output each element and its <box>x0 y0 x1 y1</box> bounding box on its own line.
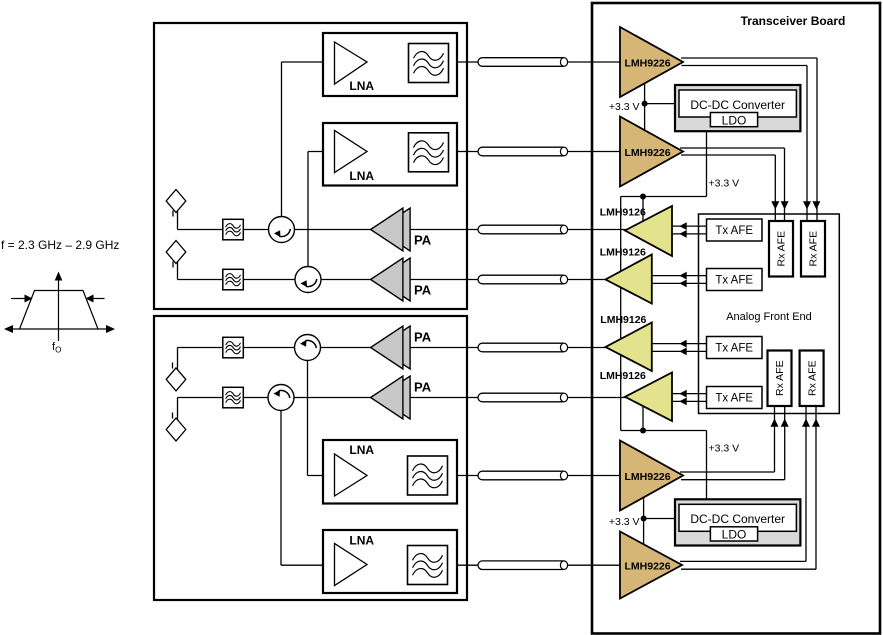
svg-text:DC-DC Converter: DC-DC Converter <box>690 98 785 112</box>
svg-text:LMH9126: LMH9126 <box>600 207 646 219</box>
svg-text:Rx AFE: Rx AFE <box>808 231 820 267</box>
svg-text:+3.3 V: +3.3 V <box>609 516 640 528</box>
svg-text:LNA: LNA <box>349 169 374 183</box>
svg-text:Tx AFE: Tx AFE <box>715 225 753 237</box>
svg-text:LMH9126: LMH9126 <box>600 247 646 259</box>
svg-text:DC-DC Converter: DC-DC Converter <box>690 512 785 526</box>
svg-text:LMH9226: LMH9226 <box>625 561 671 573</box>
svg-text:LNA: LNA <box>349 79 374 93</box>
svg-text:LDO: LDO <box>722 528 747 542</box>
svg-text:Tx AFE: Tx AFE <box>715 393 753 405</box>
svg-text:PA: PA <box>414 232 432 247</box>
svg-text:LDO: LDO <box>722 113 747 127</box>
svg-text:PA: PA <box>414 329 432 344</box>
svg-text:LNA: LNA <box>349 534 374 548</box>
svg-text:LMH9226: LMH9226 <box>625 471 671 483</box>
svg-text:Analog Front End: Analog Front End <box>726 311 812 323</box>
svg-text:Tx AFE: Tx AFE <box>715 275 753 287</box>
svg-text:PA: PA <box>414 379 432 394</box>
svg-text:LMH9126: LMH9126 <box>600 370 646 382</box>
svg-text:Rx AFE: Rx AFE <box>806 360 818 396</box>
svg-text:LMH9226: LMH9226 <box>625 58 671 70</box>
svg-text:LMH9126: LMH9126 <box>600 314 646 326</box>
svg-text:+3.3 V: +3.3 V <box>709 443 740 455</box>
svg-text:+3.3 V: +3.3 V <box>609 101 640 113</box>
svg-text:Rx AFE: Rx AFE <box>774 360 786 396</box>
svg-text:LMH9226: LMH9226 <box>625 147 671 159</box>
svg-text:LNA: LNA <box>349 443 374 457</box>
svg-text:Transceiver Board: Transceiver Board <box>741 14 846 28</box>
svg-text:Tx AFE: Tx AFE <box>715 343 753 355</box>
svg-text:Rx AFE: Rx AFE <box>776 231 788 267</box>
svg-text:+3.3 V: +3.3 V <box>709 178 740 190</box>
svg-text:f = 2.3 GHz – 2.9 GHz: f = 2.3 GHz – 2.9 GHz <box>1 238 119 252</box>
svg-text:PA: PA <box>414 282 432 297</box>
